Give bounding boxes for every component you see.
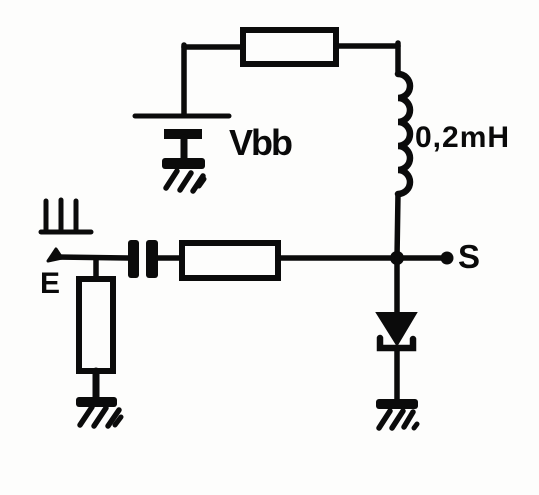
junction dot at S crossing [390,251,404,265]
wire diode to ground [394,349,400,401]
label Vbb [229,122,292,163]
node S terminal dot [441,252,454,265]
resistor R3 (vertical, at E) [79,279,113,371]
battery Vbb plate (long thin) [135,114,229,119]
pulse input symbol [41,200,91,232]
inductor L1 0,2mH [398,74,410,194]
wire left vertical down to battery [181,45,187,115]
ground (diode) [376,399,418,428]
battery Vbb plate (short thick) [164,129,202,139]
label E [40,267,60,300]
label 0,2mH [415,121,510,154]
svg-text:E: E [40,267,60,300]
resistor R1 (top) [243,30,336,64]
svg-text:Vbb: Vbb [229,122,292,163]
svg-text:0,2mH: 0,2mH [415,121,510,154]
wire T junction down to resistor R3 [93,258,99,279]
wire R1 right to corner [336,43,398,49]
wire battery stem [181,138,188,161]
wire R3 stem to ground [93,371,100,399]
ground (R3) [76,397,121,426]
diode D1 [377,313,416,348]
capacitor C1 [128,240,158,278]
wire R2 to node S [278,255,443,261]
wire capacitor to resistor R2 [158,255,181,261]
wire R1 left to corner [184,44,243,50]
svg-text:S: S [458,238,480,275]
wire node S down to diode [394,258,400,316]
label S [458,238,480,275]
wire inductor to node S junction [397,194,398,258]
wire E to capacitor [56,257,128,258]
ground (battery) [162,158,205,191]
wire corner down to inductor [395,43,401,74]
node E terminal [48,249,62,261]
resistor R2 (middle horizontal) [182,243,278,278]
